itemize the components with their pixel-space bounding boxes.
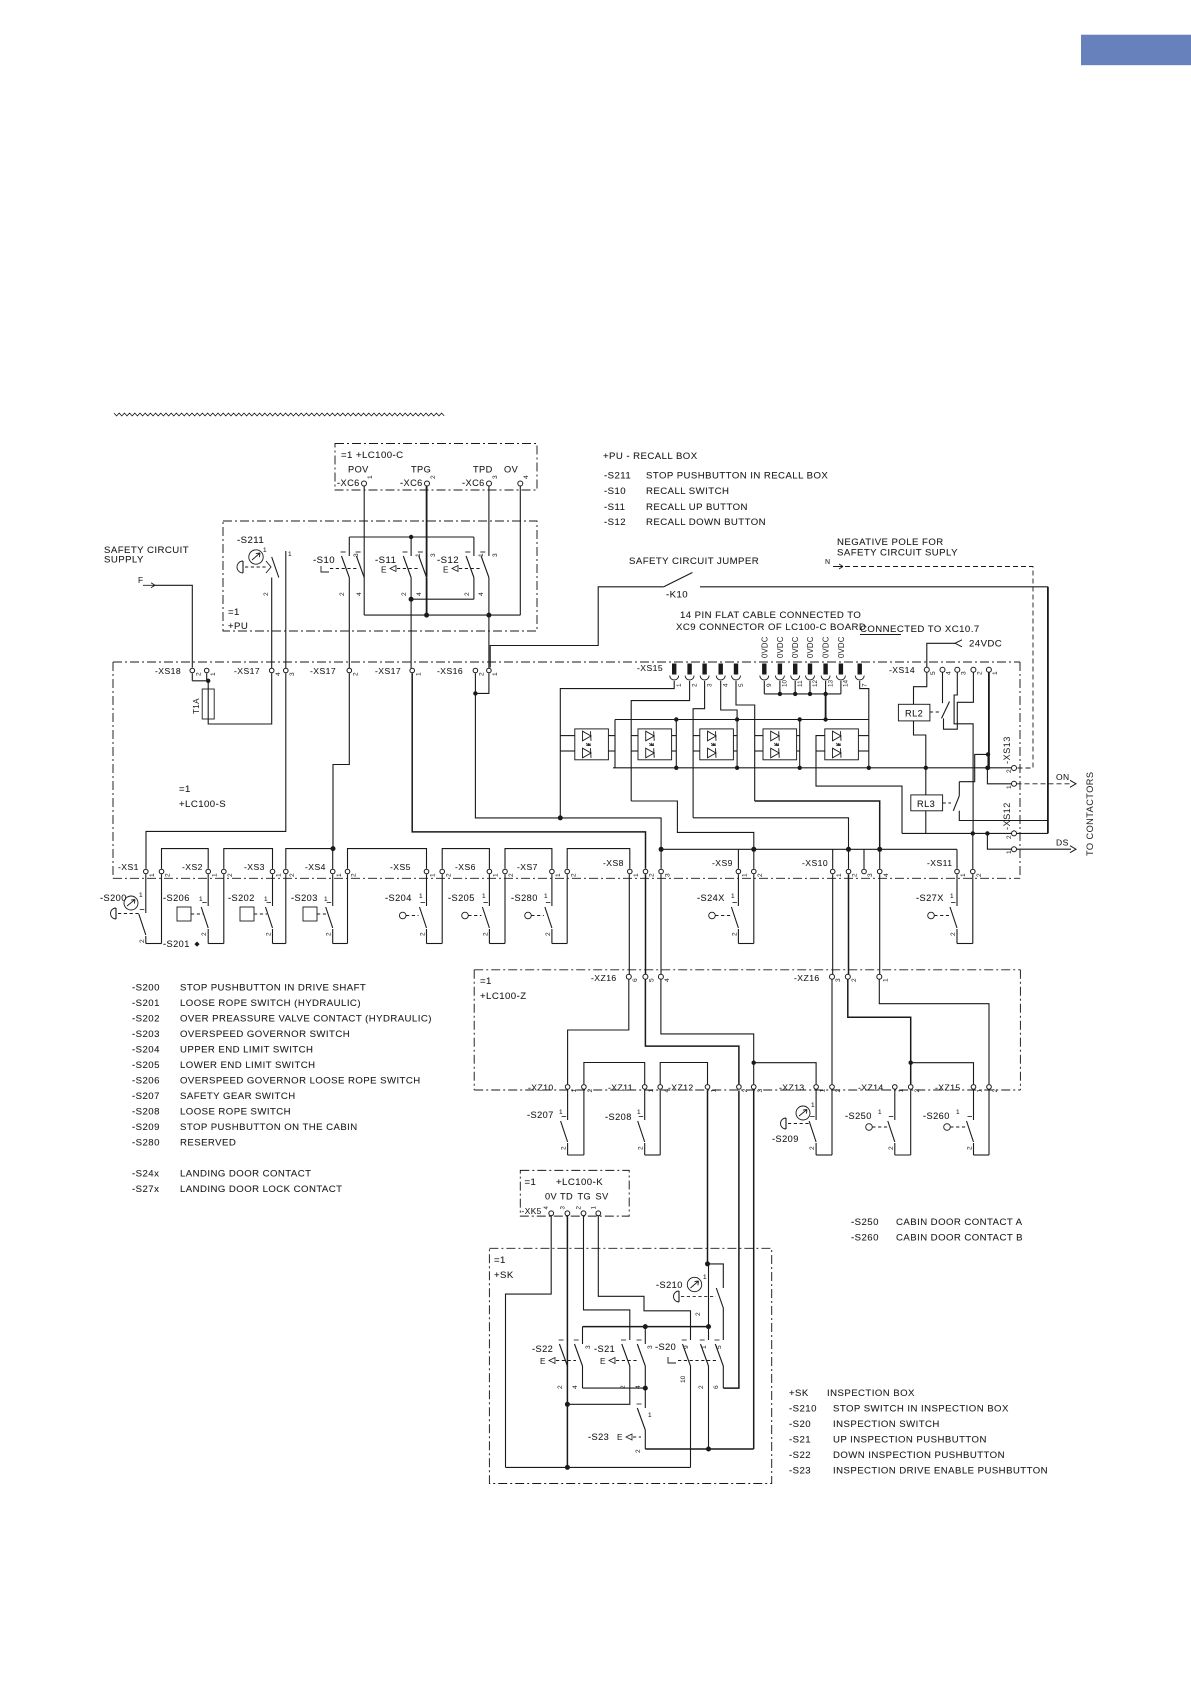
- wire 0VDC bus down (heavy): [825, 694, 827, 720]
- wire S11.2 down to XS17#3.1: [410, 578, 412, 600]
- svg-text:3: 3: [867, 873, 874, 877]
- svg-text:RECALL UP BUTTON: RECALL UP BUTTON: [646, 502, 748, 513]
- svg-text:5: 5: [648, 978, 655, 982]
- svg-text:=1: =1: [494, 1255, 506, 1266]
- wire K10 to right side (heavy): [700, 586, 1048, 588]
- svg-text:DS: DS: [1056, 838, 1069, 848]
- wire XS9.1 stub: [737, 849, 739, 869]
- svg-text:XC9 CONNECTOR OF LC100-C BOARD: XC9 CONNECTOR OF LC100-C BOARD: [676, 622, 866, 633]
- svg-text:1: 1: [711, 1089, 718, 1093]
- contact S11 right pole (pins 3-4): [419, 556, 427, 578]
- svg-text:2: 2: [914, 1089, 921, 1093]
- svg-text:-XS5: -XS5: [390, 862, 411, 872]
- svg-text:4: 4: [478, 592, 485, 596]
- contact S20 pole 1-2: [701, 1344, 709, 1366]
- svg-text:5: 5: [716, 1345, 723, 1349]
- svg-text:CONNECTED TO XC10.7: CONNECTED TO XC10.7: [860, 624, 980, 635]
- header blue bar: [1081, 35, 1191, 65]
- svg-text:-XZ11: -XZ11: [608, 1083, 633, 1093]
- wire S11.4 to bottom rail: [426, 578, 428, 616]
- wire output link U3: [736, 720, 738, 768]
- node RL3 top tie: [986, 752, 990, 756]
- wire rail to 0V return: [690, 1449, 692, 1467]
- svg-text:1: 1: [415, 672, 422, 676]
- svg-text:INSPECTION DRIVE ENABLE PUSHBU: INSPECTION DRIVE ENABLE PUSHBUTTON: [833, 1466, 1048, 1477]
- svg-text:-S21: -S21: [594, 1344, 615, 1354]
- wire XS12.1 tie: [987, 833, 1011, 849]
- svg-text:1: 1: [701, 1345, 708, 1349]
- svg-text:1: 1: [960, 873, 967, 877]
- svg-text:3: 3: [960, 671, 967, 675]
- svg-text:1: 1: [1006, 850, 1013, 854]
- svg-text:2: 2: [852, 873, 859, 877]
- wire XS17#3.1 to XS8.2: [412, 673, 645, 869]
- node TD - S21.2: [565, 1402, 570, 1407]
- svg-text:1: 1: [648, 1412, 652, 1419]
- svg-text:CABIN DOOR CONTACT A: CABIN DOOR CONTACT A: [896, 1217, 1023, 1228]
- svg-text:2: 2: [976, 873, 983, 877]
- svg-text:4: 4: [416, 592, 423, 596]
- svg-text:-S24X: -S24X: [697, 893, 725, 903]
- node TPG to bottom rail: [424, 613, 429, 618]
- wire U5 return staircase to XS12 bus: [816, 736, 902, 834]
- contact S22 left pole (on TD wire): [559, 1339, 564, 1341]
- svg-text:1: 1: [149, 873, 156, 877]
- svg-text:LOOSE ROPE SWITCH (HYDRAULIC): LOOSE ROPE SWITCH (HYDRAULIC): [180, 998, 361, 1009]
- wire XS8.2 to XZ16.5 (heavy): [645, 874, 647, 974]
- wire XS10.4 to XZ16.1: [879, 874, 881, 974]
- svg-text:-S205: -S205: [132, 1060, 160, 1071]
- svg-text:E: E: [600, 1357, 606, 1366]
- svg-text:1: 1: [571, 1089, 578, 1093]
- svg-text:4: 4: [664, 978, 671, 982]
- svg-text:1: 1: [878, 1109, 882, 1116]
- optocoupler U3: [700, 729, 734, 760]
- wire common rail H2 (heavy): [583, 1326, 709, 1328]
- svg-text:1: 1: [544, 893, 548, 900]
- wire XS15.1 staircase to U1 and chain: [560, 681, 674, 818]
- wire XS15.5 staircase to U4: [736, 681, 755, 801]
- jumper K10: [490, 587, 664, 668]
- wire XS14.3 to XS12 bus: [954, 672, 973, 833]
- svg-text:-S280: -S280: [511, 893, 538, 903]
- svg-text:=1: =1: [480, 976, 492, 987]
- svg-text:-K10: -K10: [666, 590, 688, 601]
- svg-text:2: 2: [479, 672, 486, 676]
- svg-text:LOWER END LIMIT SWITCH: LOWER END LIMIT SWITCH: [180, 1060, 316, 1071]
- svg-text:9: 9: [683, 1345, 690, 1349]
- svg-text:2: 2: [139, 939, 146, 943]
- svg-text:-S200: -S200: [100, 893, 127, 903]
- svg-text:1: 1: [882, 978, 889, 982]
- node tap to XS17#2: [331, 846, 336, 851]
- svg-text:2: 2: [731, 932, 738, 936]
- wire XS11.1 stub: [956, 849, 958, 869]
- svg-text:-XS14: -XS14: [889, 665, 915, 675]
- svg-text:2: 2: [691, 683, 698, 687]
- fuse T1A: [207, 681, 209, 689]
- wire output link U5: [868, 720, 870, 768]
- wire XS10.1 to XZ16.3: [832, 874, 834, 974]
- svg-text:-XS1: -XS1: [118, 862, 139, 872]
- node 0VDC bus: [823, 692, 827, 696]
- svg-text:-S204: -S204: [385, 893, 412, 903]
- svg-text:1: 1: [637, 1109, 641, 1116]
- node 0VDC bus: [793, 692, 797, 696]
- svg-text:1: 1: [419, 893, 423, 900]
- svg-text:1: 1: [263, 547, 267, 554]
- svg-text:2: 2: [196, 672, 203, 676]
- wire S11.2 link to S12.2: [411, 598, 474, 600]
- svg-text:+SK: +SK: [789, 1388, 809, 1399]
- svg-text:CABIN DOOR CONTACT B: CABIN DOOR CONTACT B: [896, 1233, 1023, 1244]
- wire XS10.2 stub: [848, 849, 850, 869]
- svg-text:-XZ12: -XZ12: [668, 1083, 694, 1093]
- svg-text:-S22: -S22: [789, 1450, 811, 1461]
- svg-text:N: N: [825, 559, 831, 566]
- svg-text:TG: TG: [578, 1192, 592, 1202]
- relay coil RL2: [898, 704, 930, 721]
- wire chain loop XS5.2-XS6.1: [442, 849, 489, 869]
- svg-text:-S201: -S201: [163, 939, 190, 949]
- wire S12.4 through rail down to XS16.1: [488, 578, 490, 669]
- contact S10 right pole: [363, 556, 365, 578]
- svg-text:2: 2: [649, 873, 656, 877]
- label 24VDC: [955, 640, 962, 647]
- svg-text:STOP PUSHBUTTON ON THE CABIN: STOP PUSHBUTTON ON THE CABIN: [180, 1122, 358, 1133]
- svg-text:4: 4: [523, 475, 530, 479]
- svg-text:2: 2: [351, 873, 358, 877]
- svg-text:-S23: -S23: [588, 1432, 609, 1442]
- svg-text:2: 2: [742, 1089, 749, 1093]
- svg-text:2: 2: [638, 1146, 645, 1150]
- svg-text:2: 2: [809, 1146, 816, 1150]
- node XS10.2 junction: [846, 847, 851, 852]
- wire chain loop XS3.2-XS4.1: [286, 849, 333, 869]
- contact RL3 linkage: [943, 802, 951, 804]
- wire S22.4 to rail: [582, 1366, 584, 1388]
- contact of S211 (pins 1-2): [272, 557, 279, 578]
- node lower bus: [924, 766, 928, 770]
- svg-text:F: F: [138, 576, 143, 585]
- svg-text:-S27x: -S27x: [132, 1184, 159, 1195]
- optocoupler U1: [575, 729, 609, 760]
- svg-text:2: 2: [1006, 835, 1013, 839]
- svg-text:ON: ON: [1056, 772, 1070, 782]
- svg-text:-S280: -S280: [132, 1138, 160, 1149]
- svg-text:4: 4: [543, 1206, 550, 1210]
- wire XZ16.4 to XZ12.3: [661, 980, 754, 1085]
- wire XS11.2 up to XS12 bus: [972, 833, 974, 868]
- svg-text:2: 2: [561, 1146, 568, 1150]
- wire XZ16.5 to XZ12.2: [645, 980, 739, 1085]
- output ON arrow: [1017, 783, 1072, 785]
- svg-text:3: 3: [757, 1089, 764, 1093]
- svg-text:4: 4: [883, 873, 890, 877]
- svg-text:-S209: -S209: [772, 1134, 799, 1144]
- wire XZ12.3 down to enable rail (heavy): [753, 1091, 755, 1450]
- wire XZ12.1 down to S210 (heavy): [707, 1091, 709, 1264]
- svg-text:2: 2: [570, 873, 577, 877]
- svg-text:2: 2: [263, 592, 270, 596]
- svg-text:SUPPLY: SUPPLY: [104, 555, 144, 566]
- svg-text:2: 2: [698, 1385, 705, 1389]
- node S210 feed: [705, 1261, 710, 1266]
- svg-text:INSPECTION BOX: INSPECTION BOX: [827, 1388, 915, 1399]
- svg-text:1: 1: [482, 893, 486, 900]
- svg-text:1: 1: [199, 896, 203, 903]
- svg-text:+LC100-S: +LC100-S: [179, 799, 226, 810]
- svg-text:1: 1: [950, 893, 954, 900]
- svg-text:+LC100-Z: +LC100-Z: [480, 991, 527, 1002]
- svg-text:1: 1: [264, 896, 268, 903]
- output DS arrow: [1017, 848, 1072, 850]
- svg-text:2: 2: [165, 873, 172, 877]
- svg-text:-S23: -S23: [789, 1466, 811, 1477]
- node XS10.4 junction: [877, 847, 882, 852]
- svg-text:-XK5: -XK5: [522, 1206, 542, 1216]
- svg-text:1: 1: [633, 873, 640, 877]
- contact S20 pole 5-6: [715, 1344, 723, 1366]
- wire S21.2 to TD node: [567, 1366, 629, 1404]
- svg-text:14: 14: [843, 679, 850, 687]
- svg-text:-S208: -S208: [605, 1112, 632, 1122]
- svg-text:3: 3: [706, 683, 713, 687]
- node XS13 tie: [985, 766, 989, 770]
- svg-text:2: 2: [420, 932, 427, 936]
- svg-text:1: 1: [210, 672, 217, 676]
- svg-text:-S12: -S12: [437, 555, 459, 566]
- wire XS14.1 down to lower bus (heavy): [988, 672, 990, 768]
- svg-text:-XS2: -XS2: [182, 862, 203, 872]
- svg-text:-S27X: -S27X: [916, 893, 944, 903]
- svg-text:E: E: [540, 1357, 546, 1366]
- wire chain loop XS4.2-XS5.1: [348, 849, 427, 869]
- svg-text:2: 2: [545, 932, 552, 936]
- svg-text:13: 13: [827, 679, 834, 687]
- svg-text:OV: OV: [504, 465, 519, 475]
- svg-text:1: 1: [956, 1109, 960, 1116]
- svg-text:2: 2: [967, 1146, 974, 1150]
- wire XS8.1 to XZ16.6: [628, 874, 630, 974]
- svg-text:14 PIN FLAT CABLE CONNECTED TO: 14 PIN FLAT CABLE CONNECTED TO: [680, 610, 861, 621]
- svg-text:2: 2: [695, 1312, 702, 1316]
- svg-text:-XS8: -XS8: [603, 858, 624, 868]
- wire chain loop XS6.2-XS7.1: [505, 849, 552, 869]
- wire XZ16.2 to XZ14.2: [848, 980, 911, 1085]
- node lower bus: [867, 766, 871, 770]
- wire XS9.2 stub: [753, 849, 755, 869]
- svg-text:2: 2: [339, 592, 346, 596]
- svg-text:2: 2: [1006, 769, 1013, 773]
- wire bottom rail (0V) of recall contacts: [364, 614, 520, 616]
- svg-text:-XC6: -XC6: [337, 478, 360, 488]
- svg-text:1: 1: [276, 873, 283, 877]
- node 0V return - TD: [565, 1465, 570, 1470]
- svg-text:2: 2: [430, 475, 437, 479]
- contact S20 pole 9-10: [683, 1344, 691, 1366]
- wire XS17.3 to XS1.1: [146, 673, 286, 869]
- svg-text:-XC6: -XC6: [400, 478, 423, 488]
- svg-text:2: 2: [326, 932, 333, 936]
- svg-text:-S202: -S202: [132, 1014, 160, 1025]
- wire XS15.3 staircase to U3: [693, 681, 705, 818]
- svg-text:1: 1: [836, 873, 843, 877]
- node S23 rail: [643, 1386, 648, 1391]
- recall box +PU enclosure: [223, 521, 537, 631]
- node XS9.2 junction: [751, 847, 756, 852]
- svg-text:6: 6: [713, 1385, 720, 1389]
- wire XS14.5 to RL2 coil: [914, 672, 927, 704]
- wire XS15.2 staircase to U2: [631, 681, 689, 801]
- svg-text:4: 4: [723, 683, 730, 687]
- svg-text:-S210: -S210: [656, 1280, 683, 1290]
- svg-text:OVER PREASSURE VALVE CONTACT (: OVER PREASSURE VALVE CONTACT (HYDRAULIC): [180, 1014, 432, 1025]
- wire chain loop XS1.2-XS2.1: [162, 849, 209, 869]
- wire 0V from XK5.4: [506, 1216, 552, 1468]
- svg-text:-S206: -S206: [163, 893, 190, 903]
- svg-text:1: 1: [367, 475, 374, 479]
- svg-text:-XS12: -XS12: [1002, 802, 1012, 830]
- wire rail S22.4-S23: [583, 1387, 646, 1389]
- svg-text:+PU - RECALL BOX: +PU - RECALL BOX: [603, 451, 698, 462]
- svg-text:-S204: -S204: [132, 1045, 160, 1056]
- svg-text:-XS18: -XS18: [155, 666, 181, 676]
- svg-text:2: 2: [950, 932, 957, 936]
- svg-text:UP INSPECTION PUSHBUTTON: UP INSPECTION PUSHBUTTON: [833, 1435, 987, 1446]
- wire S210 to S20.5: [722, 1308, 724, 1340]
- svg-text:-S250: -S250: [845, 1111, 872, 1121]
- svg-text:-S205: -S205: [448, 893, 475, 903]
- svg-text:2: 2: [992, 1089, 999, 1093]
- contact S210: [708, 1264, 724, 1288]
- svg-text:-S12: -S12: [604, 517, 626, 528]
- svg-text:+PU: +PU: [228, 621, 248, 632]
- svg-text:STOP SWITCH IN INSPECTION BOX: STOP SWITCH IN INSPECTION BOX: [833, 1404, 1009, 1415]
- svg-text:-S250: -S250: [851, 1217, 879, 1228]
- svg-text:1: 1: [590, 1206, 597, 1210]
- svg-text:1: 1: [139, 892, 143, 899]
- wire XZ16.3 to XZ13.2: [831, 980, 833, 1085]
- svg-text:SAFETY CIRCUIT SUPLY: SAFETY CIRCUIT SUPLY: [837, 548, 958, 559]
- svg-text:-S20: -S20: [655, 1342, 676, 1352]
- svg-text:-S208: -S208: [132, 1107, 160, 1118]
- wire SV from XK5.1 to S20: [598, 1216, 690, 1340]
- wire U3 return staircase to XS10.2: [693, 818, 848, 850]
- svg-text:1: 1: [336, 873, 343, 877]
- svg-text:+LC100-K: +LC100-K: [556, 1177, 603, 1188]
- node upper bus: [674, 717, 678, 721]
- svg-text:2: 2: [445, 873, 452, 877]
- stop pushbutton S209 (cabin): [796, 1106, 810, 1120]
- svg-text:-S21: -S21: [789, 1435, 811, 1446]
- svg-text:TO CONTACTORS: TO CONTACTORS: [1085, 772, 1095, 856]
- contact S23: [644, 1405, 646, 1408]
- svg-text:0VDC: 0VDC: [791, 636, 800, 658]
- node XS11.2 tie: [971, 831, 975, 835]
- svg-text:-XS3: -XS3: [244, 862, 265, 872]
- node upper bus: [735, 717, 739, 721]
- svg-text:1: 1: [648, 1089, 655, 1093]
- svg-text:POV: POV: [348, 465, 369, 475]
- node lower bus: [798, 766, 802, 770]
- svg-text:11: 11: [797, 680, 804, 687]
- svg-text:-S20: -S20: [789, 1419, 811, 1430]
- wire XZ12.2 down to S20.6 (heavy): [723, 1091, 739, 1389]
- svg-text:T1A: T1A: [192, 698, 201, 714]
- svg-text:2: 2: [757, 873, 764, 877]
- svg-text:4: 4: [275, 672, 282, 676]
- node XZ14.2 link: [909, 1061, 913, 1065]
- svg-text:-XZ16: -XZ16: [591, 973, 617, 983]
- wire XS18 pins join: [191, 673, 193, 681]
- svg-text:4: 4: [946, 671, 953, 675]
- node XS18 junction: [206, 679, 210, 683]
- wire 0V return rail: [506, 1466, 691, 1468]
- node lower bus: [674, 766, 678, 770]
- 0VDC bus wire: [763, 681, 765, 694]
- inspection box +SK enclosure: [489, 1248, 771, 1483]
- svg-text:INSPECTION SWITCH: INSPECTION SWITCH: [833, 1419, 940, 1430]
- node 0VDC bus: [808, 692, 812, 696]
- svg-text:-S202: -S202: [228, 893, 255, 903]
- svg-text:RECALL DOWN BUTTON: RECALL DOWN BUTTON: [646, 517, 766, 528]
- svg-text:10: 10: [782, 679, 789, 687]
- svg-text:6: 6: [632, 978, 639, 982]
- wire U2 return staircase to XS9.2: [631, 801, 754, 849]
- node XS15.1 net on XS16 line: [558, 815, 563, 820]
- relay coil RL3: [911, 795, 943, 811]
- svg-text:RECALL SWITCH: RECALL SWITCH: [646, 486, 729, 497]
- svg-text:-S203: -S203: [132, 1029, 160, 1040]
- svg-text:1: 1: [676, 683, 683, 687]
- svg-text:1: 1: [559, 1109, 563, 1116]
- optocoupler U5: [825, 729, 859, 760]
- svg-text:-S24x: -S24x: [132, 1169, 159, 1180]
- contact S12 left pole (pins 1-2): [473, 537, 475, 556]
- wire XZ16.6 to XZ10.1: [568, 980, 629, 1085]
- svg-text:5: 5: [738, 683, 745, 687]
- wire POV from XC6.1 to S10: [363, 486, 365, 556]
- svg-text:-S11: -S11: [604, 502, 625, 513]
- svg-text:-XC6: -XC6: [462, 478, 485, 488]
- cabinet +LC100-S enclosure: [113, 661, 1020, 663]
- svg-text:9: 9: [766, 683, 773, 687]
- svg-text:-XS9: -XS9: [712, 858, 733, 868]
- svg-text:10: 10: [680, 1375, 687, 1383]
- svg-text:3: 3: [664, 873, 671, 877]
- svg-text:-XS6: -XS6: [455, 862, 476, 872]
- svg-text:-S203: -S203: [291, 893, 318, 903]
- optocoupler U4: [763, 729, 797, 760]
- svg-text:0V: 0V: [545, 1192, 558, 1202]
- svg-text:-XZ15: -XZ15: [935, 1083, 961, 1093]
- svg-text:3: 3: [585, 1345, 592, 1349]
- revision squiggle line: [114, 413, 444, 416]
- svg-text:1: 1: [731, 893, 735, 900]
- contact RL2 linkage: [930, 711, 939, 713]
- svg-text:2: 2: [201, 932, 208, 936]
- svg-text:-S200: -S200: [132, 983, 160, 994]
- wire chain loop XS2.2-XS3.1: [224, 849, 273, 869]
- wire XS16 pins: [474, 673, 476, 693]
- svg-text:1: 1: [703, 1274, 707, 1281]
- node lower bus: [735, 766, 739, 770]
- wire XZ16.1 to XZ15.2: [879, 980, 989, 1085]
- svg-text:-XZ16: -XZ16: [794, 973, 820, 983]
- svg-text:RESERVED: RESERVED: [180, 1138, 236, 1149]
- svg-text:OVERSPEED GOVERNOR LOOSE ROPE: OVERSPEED GOVERNOR LOOSE ROPE SWITCH: [180, 1076, 421, 1087]
